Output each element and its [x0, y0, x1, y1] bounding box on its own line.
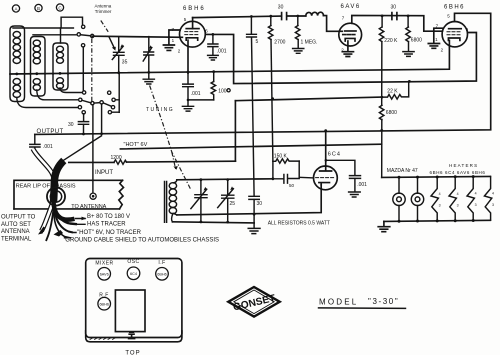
svg-text:6C4: 6C4 [328, 152, 341, 158]
svg-text:"HOT" 6V: "HOT" 6V [124, 142, 148, 148]
svg-text:INPUT: INPUT [95, 170, 113, 176]
svg-text:.001: .001 [191, 91, 201, 97]
svg-text:HEATERS: HEATERS [449, 163, 478, 168]
svg-text:220 K: 220 K [384, 38, 398, 44]
svg-text:4: 4 [475, 192, 477, 196]
svg-text:6BH6: 6BH6 [183, 6, 206, 12]
svg-text:TOP: TOP [125, 351, 140, 355]
svg-text:50: 50 [289, 183, 295, 188]
svg-text:150 K: 150 K [274, 153, 288, 159]
svg-text:TUNING: TUNING [146, 107, 174, 113]
svg-text:6BH6: 6BH6 [444, 4, 465, 10]
svg-text:3: 3 [492, 203, 494, 207]
svg-text:R.F: R.F [99, 293, 109, 299]
svg-text:B+ 80 TO 180 V: B+ 80 TO 180 V [87, 214, 130, 220]
svg-text:5: 5 [256, 39, 259, 45]
svg-text:100: 100 [218, 89, 227, 95]
svg-text:TERMINAL: TERMINAL [1, 236, 32, 242]
svg-text:30: 30 [278, 5, 284, 11]
svg-text:6AV6: 6AV6 [341, 4, 361, 10]
svg-text:ANTENNA: ANTENNA [1, 229, 30, 235]
svg-text:3: 3 [475, 203, 477, 207]
svg-text:6BH6: 6BH6 [99, 303, 109, 307]
svg-text:30: 30 [257, 201, 263, 207]
svg-text:30: 30 [391, 5, 397, 11]
svg-text:4: 4 [457, 192, 459, 196]
svg-text:Antenna: Antenna [95, 3, 112, 8]
svg-text:22 K: 22 K [387, 89, 398, 95]
svg-text:1200: 1200 [111, 155, 122, 161]
svg-text:OUTPUT: OUTPUT [37, 129, 64, 135]
svg-text:A: A [14, 7, 17, 12]
svg-text:6C4: 6C4 [130, 272, 137, 276]
svg-text:6800: 6800 [411, 37, 422, 43]
svg-text:.001: .001 [43, 144, 53, 150]
svg-text:AUTO SET: AUTO SET [1, 222, 31, 228]
svg-text:30: 30 [68, 122, 74, 128]
svg-text:"HOT" 6V, NO TRACER: "HOT" 6V, NO TRACER [77, 230, 142, 236]
svg-text:Trimmer: Trimmer [95, 9, 112, 14]
svg-text:MODEL: MODEL [319, 298, 358, 307]
svg-text:6BH6 6C4 6AV6 6BH6: 6BH6 6C4 6AV6 6BH6 [430, 170, 486, 175]
svg-text:"3-30": "3-30" [368, 297, 399, 306]
svg-text:2700: 2700 [274, 39, 285, 45]
svg-text:ALL RESISTORS 0.5 WATT: ALL RESISTORS 0.5 WATT [268, 221, 330, 227]
svg-text:3: 3 [457, 203, 459, 207]
svg-text:GROUND CABLE SHIELD TO AUTOMOB: GROUND CABLE SHIELD TO AUTOMOBILES CHASS… [65, 237, 219, 243]
svg-text:1 MEG.: 1 MEG. [301, 40, 318, 46]
svg-text:REAR LIP OF CHASSIS: REAR LIP OF CHASSIS [16, 183, 76, 189]
svg-text:4: 4 [492, 192, 494, 196]
svg-text:MAZDA Nr 47: MAZDA Nr 47 [387, 168, 418, 174]
svg-text:TO ANTENNA: TO ANTENNA [71, 204, 106, 210]
svg-text:.001: .001 [357, 182, 367, 188]
svg-text:OSC: OSC [127, 259, 139, 265]
svg-text:.001: .001 [217, 49, 227, 55]
svg-text:B: B [37, 6, 40, 11]
svg-text:MIXER: MIXER [95, 260, 113, 266]
svg-text:OUTPUT TO: OUTPUT TO [1, 214, 36, 220]
svg-text:35: 35 [122, 60, 128, 66]
svg-text:4: 4 [439, 192, 441, 196]
svg-text:6800: 6800 [386, 110, 397, 116]
svg-text:HAS TRACER: HAS TRACER [87, 222, 126, 228]
svg-text:25: 25 [230, 201, 236, 207]
svg-text:6BH6: 6BH6 [157, 273, 167, 277]
svg-text:I.F: I.F [158, 260, 165, 266]
svg-text:3: 3 [439, 204, 441, 208]
svg-text:6AV6: 6AV6 [100, 273, 109, 277]
